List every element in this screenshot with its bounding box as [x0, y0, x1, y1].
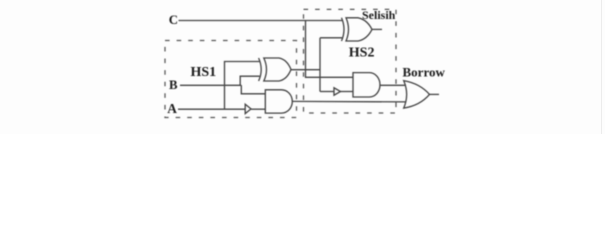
and gate AND1	[265, 90, 292, 113]
and gate AND2	[353, 73, 380, 97]
wire inverter1 output to AND1	[251, 108, 265, 110]
box HS1 (dashed)	[165, 41, 297, 118]
wire B riser to XOR1 bottom input	[240, 76, 259, 85]
wire A riser to XOR1 top input	[225, 62, 260, 110]
or gate OR1 (Borrow)	[404, 81, 430, 109]
wire C input line	[179, 20, 343, 22]
svg-text:HS2: HS2	[349, 46, 375, 61]
wire OR output Borrow	[430, 93, 440, 95]
wire AND2 output to OR top input	[380, 84, 406, 86]
wire AND1 output to OR bottom input	[292, 100, 406, 103]
xor gate XOR1 input arc	[259, 58, 262, 81]
svg-text:C: C	[169, 13, 178, 27]
wire B drop to AND1 top input	[241, 85, 265, 94]
xor gate XOR2 body	[346, 18, 372, 41]
svg-text:HS1: HS1	[191, 65, 217, 80]
svg-text:B: B	[169, 78, 178, 92]
wire D1 riser	[319, 38, 321, 92]
xor gate XOR2 input arc	[342, 18, 345, 41]
svg-text:Borrow: Borrow	[403, 64, 446, 79]
inverter (not) on A line	[245, 104, 251, 113]
wire D1 to inverter2	[320, 91, 334, 93]
xor gate XOR1 body	[264, 58, 291, 81]
wire B input line	[180, 84, 241, 86]
wire XOR2 output Selisih	[372, 28, 382, 30]
wire XOR1 output (node D1)	[291, 69, 320, 71]
wire C riser down to AND2	[306, 21, 354, 78]
svg-text:Selisih: Selisih	[362, 8, 396, 22]
svg-text:A: A	[167, 101, 177, 116]
faint scanner edge line at right	[601, 0, 603, 134]
wire A input line	[178, 108, 245, 110]
wire D1 to XOR2 bottom input	[320, 37, 342, 39]
inverter (not) before AND2	[334, 88, 341, 95]
box HS2 (dashed)	[304, 9, 397, 113]
wire inverter2 output to AND2	[341, 91, 354, 93]
